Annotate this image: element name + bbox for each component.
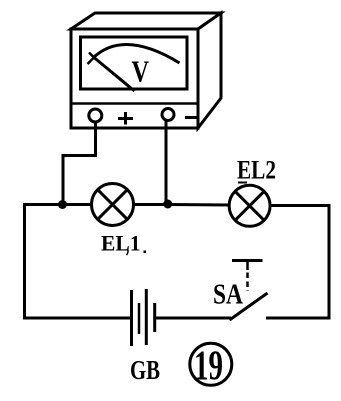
battery GB long plate 2 [145,289,148,345]
svg-text:EL2: EL2 [237,156,276,185]
node B junction dot [163,200,172,209]
voltmeter terminal strip line [71,102,198,105]
lamp EL2 [229,185,270,226]
stray ink mark under EL2 label [238,182,247,184]
switch SA blade [230,293,268,320]
wire lamp EL1 to node B [133,203,168,206]
problem number circle 19 [190,343,232,385]
wire node B to lamp EL2 [168,203,230,207]
wire down to node A [62,154,65,204]
switch SA dashed travel line [246,273,249,292]
wire battery to switch pivot [156,317,231,320]
voltmeter V meter body front face [71,29,198,128]
svg-text:19: 19 [194,344,223,390]
voltmeter terminal + (left binding post) [89,109,102,122]
wire node A to lamp EL1 [62,203,92,206]
wire left rail: node A to bottom left corner to battery [25,205,132,319]
stray ink comma after EL1 label [127,249,129,255]
switch SA fixed contact stem [246,261,249,271]
lamp EL1 [92,184,134,226]
voltmeter needle [94,58,135,92]
svg-text:EL1: EL1 [101,231,141,256]
node A junction dot [58,200,67,209]
voltmeter minus sign [185,116,197,119]
svg-text:GB: GB [130,355,160,385]
battery GB plates: long positive plate [130,290,133,346]
svg-text:V: V [132,54,150,89]
voltmeter V display window [81,37,188,89]
battery GB short plate 1 [138,303,141,334]
wire from + terminal down [94,122,97,156]
voltmeter V meter body right side face [198,13,221,128]
voltmeter V meter body top face [71,13,221,29]
voltmeter needle tip ticks [88,53,95,65]
switch SA fixed contact T bar [232,259,263,262]
voltmeter scale arc [94,45,180,63]
voltmeter terminal - (right binding post) [162,109,174,121]
wire lamp EL2 to right rail and down to switch [266,206,329,319]
voltmeter plus sign [118,112,133,125]
svg-text:SA: SA [213,279,243,311]
wire horizontal jog to left [63,154,97,157]
wire from - terminal down to node B [165,121,168,204]
battery GB short plate 2 (negative) [153,303,156,332]
stray ink period after EL1 label [144,251,147,254]
